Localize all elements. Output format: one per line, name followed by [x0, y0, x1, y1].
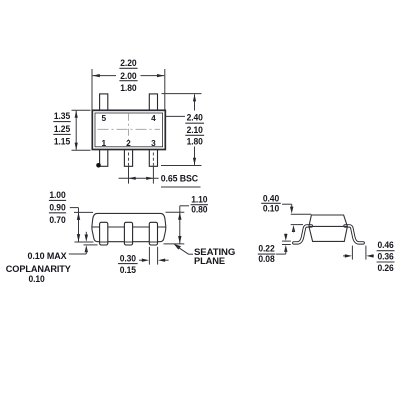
down arrow to body bottom [85, 232, 87, 236]
extension line right [164, 69, 166, 110]
dimension line with arrows [75, 111, 77, 150]
seating plane right segment [164, 243, 185, 245]
parting line (side view) [309, 225, 348, 227]
leader to 1.10 [180, 205, 189, 207]
right gull-wing lead [345, 226, 363, 243]
pin 2 centerline [128, 153, 130, 167]
foot bottom extension line [282, 244, 291, 246]
svg-text:3: 3 [151, 138, 156, 148]
extension line top [162, 93, 202, 95]
svg-text:0.10 MAX: 0.10 MAX [28, 250, 68, 261]
extension line right [157, 247, 159, 265]
centerline cross [98, 114, 161, 145]
pin 4 lead (top-right) [149, 94, 157, 111]
extension line body top right [166, 211, 185, 213]
lead top extension line [291, 224, 303, 226]
leader from 0.90 [70, 207, 79, 209]
extension line body bottom [75, 241, 94, 243]
dimension line with arrows [93, 75, 116, 77]
package body (front view) [92, 213, 166, 241]
svg-text:1.35: 1.35 [54, 110, 70, 121]
front lead 2 [124, 222, 132, 245]
seating plane left segment [84, 244, 98, 246]
package body (top view, double outline) [92, 110, 165, 149]
pin 2 lead (bottom-middle) [124, 149, 132, 167]
svg-text:2.00: 2.00 [120, 70, 136, 81]
dimension line [78, 208, 80, 242]
pin 3 lead (bottom-right) [149, 149, 157, 167]
svg-text:1.00: 1.00 [49, 189, 65, 200]
svg-text:0.08: 0.08 [258, 253, 274, 264]
pin 5 lead (top-left) [100, 94, 108, 111]
package body (side view) [309, 215, 348, 241]
front lead 3 [149, 222, 157, 245]
up arrow to seating plane [85, 245, 88, 252]
svg-text:PLANE: PLANE [194, 255, 225, 266]
pin 3 centerline [152, 153, 154, 167]
foot top extension line [282, 240, 291, 242]
leader to 0.10 MAX [69, 253, 87, 255]
leader arrow [174, 244, 181, 250]
extension line left [148, 247, 150, 265]
dimension line [179, 206, 181, 244]
extension line top [72, 109, 91, 111]
front lead 1 [100, 222, 108, 245]
svg-text:0.26: 0.26 [378, 262, 394, 273]
svg-text:1.80: 1.80 [120, 82, 136, 93]
extension line left [351, 246, 353, 260]
extension line body top [74, 211, 93, 213]
svg-text:5: 5 [101, 113, 106, 123]
dimension line with arrows [194, 94, 196, 110]
svg-text:1: 1 [101, 138, 106, 148]
svg-text:2.40: 2.40 [187, 112, 203, 123]
svg-text:0.80: 0.80 [191, 204, 207, 215]
svg-text:2.10: 2.10 [187, 124, 203, 135]
svg-text:0.65 BSC: 0.65 BSC [161, 172, 199, 183]
arrows pointing inward [343, 255, 346, 257]
arrows pointing inward [139, 259, 143, 261]
body top extension line [291, 213, 312, 215]
left gull-wing lead [294, 226, 312, 243]
svg-text:0.10: 0.10 [263, 203, 279, 214]
dimension line with outward arrows [119, 177, 159, 179]
svg-text:0.15: 0.15 [120, 264, 136, 275]
svg-text:1.80: 1.80 [187, 135, 203, 146]
extension line bottom [72, 149, 91, 151]
extension line right [365, 246, 367, 260]
up arrow with leader [284, 245, 287, 252]
line below 0.65 BSC [161, 186, 201, 188]
svg-text:0.30: 0.30 [120, 252, 136, 263]
svg-text:2.20: 2.20 [120, 57, 136, 68]
extension line bottom [161, 165, 202, 167]
leader with down arrow [282, 203, 292, 205]
svg-text:0.36: 0.36 [378, 250, 394, 261]
mold parting line [92, 226, 166, 228]
pin 1 marker dot [96, 163, 101, 168]
svg-text:0.70: 0.70 [49, 214, 65, 225]
down arrow [285, 234, 287, 236]
svg-text:4: 4 [151, 113, 156, 123]
svg-text:1.15: 1.15 [54, 136, 70, 147]
svg-text:2: 2 [126, 138, 131, 148]
extension line left [91, 69, 93, 110]
svg-text:1.25: 1.25 [54, 123, 70, 134]
leader from body to 2.40 [166, 115, 185, 117]
pin 1 lead (bottom-left) [100, 149, 108, 167]
svg-text:0.10: 0.10 [29, 273, 45, 284]
svg-text:0.90: 0.90 [49, 201, 65, 212]
svg-text:0.46: 0.46 [378, 239, 394, 250]
up arrow to lead top line [292, 225, 295, 232]
